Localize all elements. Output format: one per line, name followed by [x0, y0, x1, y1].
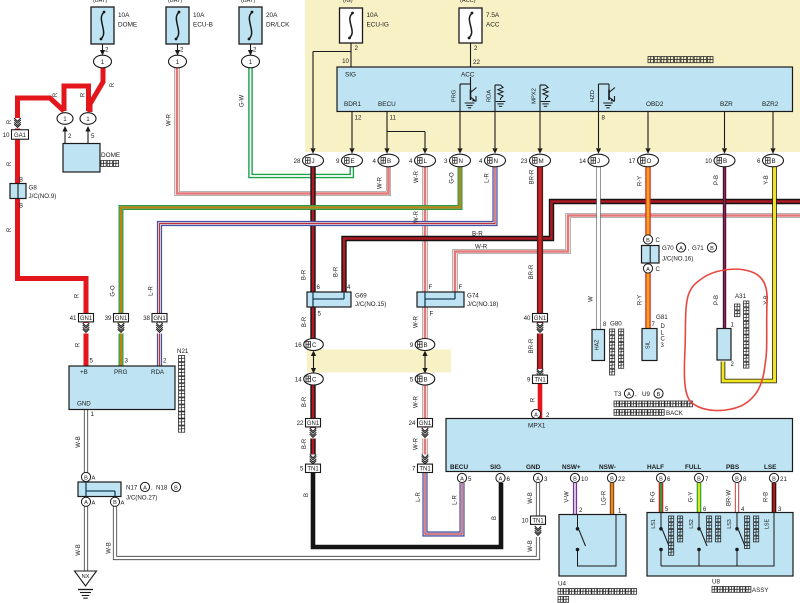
- svg-text:LS1: LS1: [651, 519, 657, 529]
- svg-text:2: 2: [105, 47, 109, 54]
- svg-text:B-R: B-R: [302, 438, 308, 449]
- svg-text:21: 21: [780, 476, 787, 483]
- svg-text:B-R: B-R: [472, 231, 483, 238]
- svg-text:B: B: [735, 476, 739, 482]
- svg-text:1: 1: [91, 411, 95, 418]
- svg-text:G-O: G-O: [450, 172, 456, 184]
- svg-text:9: 9: [410, 342, 414, 349]
- svg-text:B: B: [646, 238, 650, 244]
- svg-text:5: 5: [91, 133, 95, 140]
- svg-text:R: R: [81, 92, 87, 97]
- svg-text:2: 2: [474, 45, 478, 52]
- svg-text:E: E: [351, 158, 355, 165]
- svg-text:8: 8: [602, 115, 606, 122]
- svg-text:C: C: [661, 337, 666, 343]
- svg-text:R: R: [7, 227, 13, 232]
- svg-text:10: 10: [342, 58, 349, 65]
- svg-text:(ACC): (ACC): [460, 0, 476, 4]
- svg-text:R: R: [531, 397, 537, 402]
- svg-text:40: 40: [524, 315, 531, 322]
- svg-text:10: 10: [581, 476, 588, 483]
- svg-text:SIG: SIG: [490, 464, 501, 471]
- svg-text:LS2: LS2: [689, 519, 695, 529]
- svg-text:11: 11: [390, 115, 397, 122]
- svg-text:U9: U9: [642, 391, 651, 398]
- svg-text:R: R: [7, 161, 13, 166]
- svg-text:B: B: [772, 476, 776, 482]
- svg-text:LS3: LS3: [727, 519, 733, 529]
- svg-text:B: B: [772, 158, 776, 165]
- svg-text:G74: G74: [467, 293, 479, 300]
- svg-text:F: F: [430, 311, 434, 318]
- svg-text:+B: +B: [80, 369, 88, 376]
- svg-text:B-R: B-R: [302, 269, 308, 280]
- svg-text:W-R: W-R: [167, 113, 173, 126]
- svg-text:G-Y: G-Y: [689, 492, 695, 503]
- svg-text:W: W: [589, 296, 595, 302]
- svg-text:B: B: [424, 342, 428, 349]
- svg-text:B-R: B-R: [302, 316, 308, 327]
- svg-text:B: B: [304, 493, 310, 497]
- svg-text:R-Y: R-Y: [638, 295, 644, 305]
- svg-text:B: B: [723, 158, 727, 165]
- svg-text:,: ,: [635, 391, 637, 398]
- svg-text:4: 4: [373, 158, 377, 165]
- svg-text:4: 4: [409, 158, 413, 165]
- svg-text:G69: G69: [355, 293, 367, 300]
- svg-text:C: C: [656, 267, 661, 273]
- svg-text:GN1: GN1: [115, 316, 128, 322]
- svg-text:J/C(NO.15): J/C(NO.15): [355, 301, 386, 308]
- svg-text:W-R: W-R: [378, 176, 384, 189]
- svg-text:G70: G70: [662, 245, 674, 252]
- svg-text:R: R: [7, 119, 13, 124]
- svg-text:12: 12: [355, 115, 362, 122]
- svg-text:TN1: TN1: [307, 467, 319, 473]
- svg-text:BECU: BECU: [450, 464, 468, 471]
- svg-text:RDA: RDA: [151, 369, 165, 376]
- svg-text:J/C(NO.18): J/C(NO.18): [467, 301, 498, 308]
- svg-text:O: O: [647, 158, 652, 165]
- svg-text:A: A: [92, 476, 96, 482]
- svg-text:N17: N17: [126, 485, 138, 492]
- svg-text:GND: GND: [77, 401, 91, 408]
- svg-text:B: B: [19, 178, 23, 184]
- svg-text:J/C(NO.9): J/C(NO.9): [29, 193, 57, 200]
- svg-text:L-R: L-R: [453, 495, 459, 505]
- svg-text:LSE: LSE: [765, 519, 771, 530]
- svg-text:2: 2: [180, 47, 184, 54]
- svg-text:DR/LCK: DR/LCK: [266, 22, 290, 29]
- svg-text:PBS: PBS: [726, 464, 740, 471]
- svg-text:BACK: BACK: [666, 410, 684, 417]
- svg-text:B: B: [19, 204, 23, 210]
- svg-text:A: A: [534, 412, 538, 418]
- svg-text:HZD: HZD: [590, 90, 596, 102]
- svg-text:4: 4: [479, 158, 483, 165]
- svg-text:W-B: W-B: [76, 544, 82, 556]
- svg-text:41: 41: [70, 315, 77, 322]
- svg-text:G71: G71: [692, 245, 704, 252]
- svg-text:10: 10: [3, 132, 10, 139]
- svg-text:L-R: L-R: [485, 173, 491, 183]
- svg-text:22: 22: [618, 476, 625, 483]
- svg-text:14: 14: [295, 376, 302, 383]
- svg-text:J: J: [312, 158, 315, 165]
- svg-text:23: 23: [521, 158, 528, 165]
- svg-text:G80: G80: [610, 321, 622, 328]
- svg-text:4: 4: [347, 284, 351, 291]
- svg-text:38: 38: [143, 315, 150, 322]
- svg-text:B: B: [573, 476, 577, 482]
- svg-text:A: A: [92, 501, 96, 507]
- svg-text:SIL: SIL: [646, 341, 652, 349]
- svg-text:16: 16: [295, 342, 302, 349]
- svg-text:BR-W: BR-W: [727, 490, 733, 506]
- svg-text:W-B: W-B: [528, 540, 534, 552]
- svg-text:B: B: [84, 475, 88, 481]
- svg-text:P-B: P-B: [714, 295, 720, 305]
- svg-text:FULL: FULL: [685, 464, 701, 471]
- svg-text:F: F: [459, 284, 463, 291]
- svg-text:RDA: RDA: [487, 90, 493, 102]
- svg-text:A31: A31: [735, 293, 747, 300]
- svg-text:GA1: GA1: [14, 133, 27, 139]
- svg-text:28: 28: [294, 158, 301, 165]
- svg-text:BR-R: BR-R: [529, 264, 535, 279]
- svg-text:(BAT): (BAT): [93, 0, 107, 4]
- svg-text:DOME: DOME: [118, 22, 137, 29]
- svg-text:W-R: W-R: [414, 315, 420, 328]
- svg-text:5: 5: [318, 311, 322, 318]
- svg-text:V-W: V-W: [565, 491, 571, 503]
- svg-text:MPX1: MPX1: [528, 423, 546, 430]
- svg-text:BR-R: BR-R: [529, 338, 535, 353]
- svg-text:2: 2: [355, 45, 359, 52]
- svg-text:GND: GND: [526, 464, 541, 471]
- svg-text:3: 3: [444, 158, 448, 165]
- svg-text:B: B: [710, 246, 714, 252]
- svg-text:GN1: GN1: [307, 421, 320, 427]
- svg-text:B: B: [659, 476, 663, 482]
- svg-text:5: 5: [468, 476, 472, 483]
- svg-text:C: C: [312, 342, 317, 349]
- svg-text:U4: U4: [558, 581, 567, 588]
- svg-text:5: 5: [300, 466, 304, 473]
- svg-text:B: B: [657, 392, 661, 398]
- svg-text:GN1: GN1: [534, 316, 547, 322]
- svg-text:ECU-IG: ECU-IG: [367, 22, 389, 29]
- svg-text:ASSY: ASSY: [752, 587, 769, 594]
- svg-text:A: A: [121, 501, 125, 507]
- svg-text:L-R: L-R: [149, 286, 155, 296]
- svg-text:R-B: R-B: [764, 492, 770, 502]
- svg-text:R: R: [110, 82, 116, 87]
- svg-text:HAZ: HAZ: [595, 339, 601, 350]
- svg-text:DOME: DOME: [101, 152, 120, 159]
- svg-text:1: 1: [86, 116, 90, 123]
- svg-text:22: 22: [473, 59, 480, 66]
- svg-text:LSE: LSE: [764, 464, 777, 471]
- svg-text:N21: N21: [177, 348, 189, 355]
- svg-text:14: 14: [579, 158, 586, 165]
- svg-text:10A: 10A: [367, 12, 379, 19]
- svg-text:ACC: ACC: [486, 22, 500, 29]
- svg-text:A: A: [627, 392, 631, 398]
- svg-text:W-R: W-R: [414, 170, 420, 183]
- svg-text:B-R: B-R: [334, 266, 340, 277]
- svg-text:M: M: [539, 158, 544, 165]
- svg-text:(BAT): (BAT): [168, 0, 182, 4]
- svg-text:PRG: PRG: [452, 89, 458, 102]
- svg-text:N: N: [494, 158, 498, 165]
- svg-text:G-O: G-O: [111, 285, 117, 297]
- svg-text:HALF: HALF: [647, 464, 664, 471]
- svg-text:B-R: B-R: [302, 396, 308, 407]
- svg-text:C: C: [312, 377, 317, 384]
- svg-text:B: B: [492, 516, 498, 520]
- svg-text:1: 1: [176, 59, 180, 66]
- svg-text:BDR1: BDR1: [344, 101, 361, 108]
- svg-text:OBD2: OBD2: [646, 101, 664, 108]
- svg-text:R-G: R-G: [651, 491, 657, 502]
- svg-text:2: 2: [163, 358, 167, 365]
- svg-text:B: B: [610, 476, 614, 482]
- svg-text:,: ,: [688, 245, 690, 252]
- svg-text:R: R: [76, 342, 82, 347]
- svg-text:9: 9: [527, 377, 531, 384]
- svg-text:GN1: GN1: [419, 421, 432, 427]
- svg-text:PRG: PRG: [114, 369, 128, 376]
- svg-text:G81: G81: [656, 314, 668, 321]
- svg-text:T3: T3: [614, 391, 622, 398]
- svg-text:5: 5: [410, 376, 414, 383]
- svg-text:BZR2: BZR2: [762, 101, 779, 108]
- svg-text:GN1: GN1: [80, 316, 93, 322]
- svg-text:MPX2: MPX2: [532, 88, 538, 104]
- svg-text:N: N: [459, 158, 463, 165]
- svg-text:A: A: [499, 476, 503, 482]
- svg-text:G-W: G-W: [240, 94, 246, 107]
- svg-text:B: B: [174, 485, 178, 491]
- svg-text:C: C: [656, 238, 661, 244]
- svg-text:W-R: W-R: [475, 244, 488, 251]
- svg-text:F: F: [429, 284, 433, 291]
- svg-text:BR-R: BR-R: [530, 169, 536, 184]
- svg-text:TN1: TN1: [532, 519, 544, 525]
- svg-text:B: B: [387, 158, 391, 165]
- svg-text:NSW-: NSW-: [599, 464, 616, 471]
- svg-text:(BAT): (BAT): [241, 0, 255, 4]
- svg-text:U8: U8: [712, 579, 721, 586]
- svg-text:ACC: ACC: [461, 72, 475, 79]
- svg-text:J: J: [597, 158, 600, 165]
- svg-text:B: B: [424, 377, 428, 384]
- svg-text:J/C(NO.16): J/C(NO.16): [662, 256, 693, 263]
- svg-text:NX: NX: [81, 574, 89, 580]
- svg-text:6: 6: [667, 476, 671, 483]
- svg-text:3: 3: [125, 358, 129, 365]
- svg-text:6: 6: [757, 158, 761, 165]
- svg-text:20A: 20A: [266, 12, 278, 19]
- svg-text:,: ,: [151, 485, 153, 492]
- svg-text:J/C(NO.27): J/C(NO.27): [126, 495, 157, 502]
- svg-text:W-B: W-B: [76, 436, 82, 448]
- svg-text:W-B: W-B: [528, 492, 534, 504]
- svg-text:R: R: [53, 92, 59, 97]
- svg-text:BECU: BECU: [378, 101, 396, 108]
- svg-text:B: B: [113, 500, 117, 506]
- svg-text:TN1: TN1: [534, 378, 546, 384]
- svg-text:A: A: [679, 246, 683, 252]
- svg-text:6: 6: [507, 476, 511, 483]
- svg-text:SIG: SIG: [345, 72, 356, 79]
- svg-text:N18: N18: [156, 485, 168, 492]
- svg-text:7: 7: [412, 466, 416, 473]
- svg-text:GN1: GN1: [153, 316, 166, 322]
- svg-text:R-Y: R-Y: [638, 176, 644, 186]
- svg-text:W-R: W-R: [414, 437, 420, 450]
- svg-text:W-R: W-R: [414, 210, 420, 223]
- svg-text:G8: G8: [29, 185, 38, 192]
- svg-text:NSW+: NSW+: [562, 464, 581, 471]
- svg-text:6: 6: [317, 284, 321, 291]
- svg-text:A: A: [536, 476, 540, 482]
- svg-text:A: A: [143, 485, 147, 491]
- svg-text:8: 8: [743, 476, 747, 483]
- svg-text:2: 2: [68, 133, 72, 140]
- svg-text:L: L: [424, 158, 428, 165]
- svg-text:7: 7: [705, 476, 709, 483]
- svg-text:A: A: [460, 476, 464, 482]
- svg-text:1: 1: [249, 59, 253, 66]
- svg-text:17: 17: [629, 158, 636, 165]
- svg-text:9: 9: [336, 158, 340, 165]
- svg-text:1: 1: [63, 116, 67, 123]
- svg-text:D: D: [661, 324, 666, 330]
- svg-text:BZR: BZR: [720, 101, 733, 108]
- svg-text:W-R: W-R: [414, 395, 420, 408]
- svg-text:3: 3: [544, 476, 548, 483]
- svg-text:TN1: TN1: [419, 467, 431, 473]
- svg-text:7.5A: 7.5A: [486, 12, 500, 19]
- svg-text:10A: 10A: [118, 12, 130, 19]
- svg-text:Y-B: Y-B: [764, 175, 770, 184]
- svg-text:A: A: [84, 500, 88, 506]
- svg-text:LG-R: LG-R: [602, 490, 608, 505]
- svg-text:W-B: W-B: [107, 542, 113, 554]
- svg-text:1: 1: [101, 59, 105, 66]
- svg-text:P-B: P-B: [714, 175, 720, 185]
- svg-text:L-R: L-R: [416, 492, 422, 502]
- svg-text:22: 22: [297, 420, 304, 427]
- svg-text:10: 10: [522, 518, 529, 525]
- svg-text:R: R: [75, 293, 81, 298]
- svg-text:B: B: [697, 476, 701, 482]
- svg-text:ECU-B: ECU-B: [193, 22, 213, 29]
- svg-text:(IG): (IG): [343, 0, 353, 4]
- svg-text:39: 39: [105, 315, 112, 322]
- svg-text:2: 2: [253, 47, 257, 54]
- svg-text:10A: 10A: [193, 12, 205, 19]
- svg-text:10: 10: [705, 158, 712, 165]
- svg-text:5: 5: [90, 358, 94, 365]
- svg-text:A: A: [646, 267, 650, 273]
- svg-text:24: 24: [409, 420, 416, 427]
